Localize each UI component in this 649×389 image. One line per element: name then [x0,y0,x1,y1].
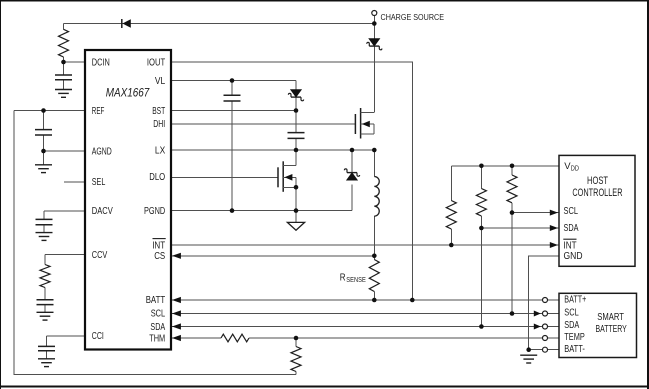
arrow into SCL pin [172,310,181,316]
resistor R5 (INT pull-up) [446,201,456,230]
svg-text:MAX1667: MAX1667 [106,85,151,99]
junction PGND at triangle [294,208,299,213]
wire BATT- row [529,349,543,351]
terminal CHARGE SOURCE [372,11,377,16]
arrow into BATT [172,297,181,303]
svg-text:DHI: DHI [153,119,165,130]
svg-text:DACV: DACV [92,206,113,217]
svg-text:INT: INT [564,240,577,251]
arrow into battery SDA [534,324,541,330]
wire REF cap column [43,111,45,165]
arrow into battery SCL [534,311,541,317]
capacitor C7 (CCI) [38,346,55,350]
svg-text:SEL: SEL [92,177,106,188]
wire BST row [171,110,296,112]
svg-text:THM: THM [149,333,165,344]
wire CS row [171,255,374,257]
junction CS-inductor-RSENSE [372,254,377,259]
wire SEL stub [64,181,85,183]
terminal battery BATT- [543,347,548,352]
junction LX bootstrap [294,148,299,153]
svg-text:REF: REF [92,106,105,117]
junction Q2 source [294,185,299,190]
junction battery SCL [510,311,515,316]
capacitor C6 (CCV) [37,300,54,305]
wire host SDA row [481,227,559,229]
svg-text:SCL: SCL [564,307,579,318]
junction VDD at SDA pull-up [479,164,484,169]
arrow into host SCL [550,210,558,216]
resistor R4 (thermistor divider) [291,347,301,372]
battery BT1 smart battery [559,293,637,357]
junction LX main [372,148,377,153]
junction VL cap [230,78,235,83]
wire SDA pull-up column [480,166,482,327]
svg-text:VL: VL [155,76,166,87]
wire thermistor divider column [295,338,297,375]
ground (DCIN bypass) [55,90,72,98]
diode D3 schottky (bootstrap VL-BST) [288,90,303,101]
svg-text:DCIN: DCIN [92,58,110,69]
wire inductor tails [373,150,375,256]
wire Q2 drain drop [295,150,297,166]
wire DHI row [171,123,355,125]
label RSENSE [340,272,366,284]
svg-text:AGND: AGND [92,146,112,157]
svg-text:R: R [340,272,346,283]
arrow into CS [172,253,181,259]
svg-text:BATT-: BATT- [564,344,585,355]
wire catch diode column [351,150,353,211]
wire PGND symbol stub [295,211,297,223]
wire LX row [171,149,374,151]
junction DCIN [61,60,66,65]
arrow into host SDA [550,225,558,231]
arrow into host INT [550,242,558,248]
terminal battery BATT+ [543,298,548,303]
resistor RSENSE [369,260,379,292]
svg-text:SCL: SCL [151,309,166,320]
ground (CCI) [38,359,55,367]
junction host SDA [479,226,484,231]
wire VL row [171,80,296,82]
svg-text:CONTROLLER: CONTROLLER [572,187,622,199]
junction battery SDA [479,324,484,329]
IC U1 MAX1667 [85,50,171,350]
junction THM divider [294,336,299,341]
wire REF bottom rail [14,111,296,375]
wire VDD row [451,165,559,167]
terminal battery SDA [543,324,548,329]
terminal battery SCL [543,311,548,316]
svg-text:SENSE: SENSE [346,277,366,284]
junction host SCL [510,210,515,215]
transistor Q2 (low-side NMOS) [278,161,296,192]
wire THM row [171,337,543,339]
svg-text:BATT: BATT [146,295,166,306]
junction INT pull-up [449,243,454,248]
junction BATT at IOUT [410,298,415,303]
wire Q2 source to PGND [295,187,297,210]
ground (DACV) [36,233,53,241]
junction AGND [41,149,46,154]
ground (CCV) [37,312,54,320]
svg-text:TEMP: TEMP [564,332,585,343]
wire RSENSE tails [373,256,375,300]
arrow into THM [172,335,181,341]
wire host SCL row [512,212,559,214]
wire CCV lead [45,255,85,313]
capacitor C2 (VL bypass) [224,95,241,101]
svg-text:SMART: SMART [597,311,624,323]
wire VL cap column [231,81,233,211]
resistor R7 (SCL pull-up) [507,175,517,203]
transistor Q1 (high-side NMOS) [355,108,374,139]
junction BST [294,108,299,113]
arrow into SDA pin [172,323,181,329]
wire charge source column [373,16,375,113]
wire SCL row [171,313,542,315]
resistor R2 (CCV) [40,265,50,288]
resistor R1 (DCIN input) [59,29,69,57]
junction BATT- ground [526,347,531,352]
capacitor C3 (bootstrap) [288,133,305,139]
svg-text:PGND: PGND [144,206,165,217]
wire AGND lead [44,150,86,152]
ground PGND (open triangle) [287,222,304,230]
wire INT row [171,244,559,246]
svg-text:SDA: SDA [150,322,165,333]
diode D4 schottky (catch) [344,169,359,180]
wire DLO row [171,176,278,178]
svg-text:CS: CS [154,251,165,262]
wire IOUT row and drop [171,62,412,300]
svg-text:BATT+: BATT+ [564,295,586,306]
ground (AGND) [35,165,52,173]
wire DACV lead [44,211,85,233]
diode D1 (charge source to DCIN) [122,19,131,28]
terminal battery TEMP [543,336,548,341]
svg-text:CCI: CCI [92,331,104,342]
svg-text:IOUT: IOUT [147,58,165,69]
ground (smart battery BATT-) [520,355,537,363]
inductor L1 [374,177,379,217]
capacitor C4 (REF) [35,130,52,135]
svg-text:BATTERY: BATTERY [596,323,627,335]
junction PGND at VL cap [230,208,235,213]
resistor R6 (SDA pull-up) [476,189,486,217]
svg-text:LX: LX [155,145,166,156]
svg-text:DLO: DLO [149,172,165,183]
junction VDD at SCL pull-up [510,164,515,169]
resistor R3 (THM series) [221,334,249,342]
wire CCI lead [47,336,86,359]
svg-text:INT: INT [152,240,165,251]
junction REF cap [41,108,46,113]
wire REF row [14,110,85,112]
wire battery terminal stubs [547,300,559,350]
svg-text:CHARGE SOURCE: CHARGE SOURCE [381,12,445,22]
wire DCIN input column [63,24,65,90]
wire host GND lead [529,256,559,350]
wire DCIN lead [64,61,86,63]
svg-text:SCL: SCL [564,206,579,217]
capacitor C5 (DACV) [36,219,53,224]
capacitor C1 (DCIN bypass) [55,75,72,80]
wire BATT row [171,299,543,301]
junction LX catch [350,148,355,153]
wire SCL pull-up column [511,166,513,314]
svg-text:SDA: SDA [564,223,579,234]
diode D2 schottky (charge source) [367,39,382,50]
svg-text:GND: GND [564,251,583,262]
wire SDA row [171,326,542,328]
IC U2 host controller [559,155,635,266]
wire bootstrap column [295,81,297,151]
svg-text:BST: BST [152,106,165,117]
svg-text:CCV: CCV [92,250,108,261]
label CHARGE SOURCE [381,12,445,22]
svg-text:SDA: SDA [564,320,579,331]
wire PGND row [171,210,352,212]
svg-text:DD: DD [571,165,579,172]
junction charge source [372,21,377,26]
svg-text:HOST: HOST [587,175,608,187]
junction BATT at RSENSE [372,298,377,303]
wire INT pull-up column [450,166,452,245]
wire charge-source top rail [64,23,375,25]
